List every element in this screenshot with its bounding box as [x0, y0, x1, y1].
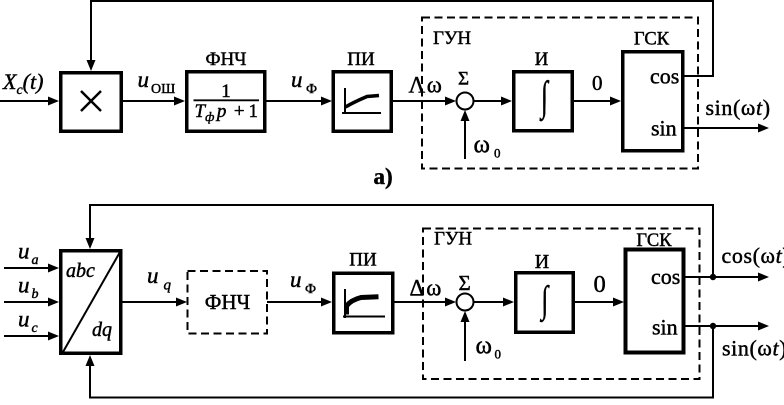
PI icon (top): [344, 88, 346, 114]
svg-text:И: И: [535, 251, 549, 273]
svg-text:u: u: [290, 267, 302, 292]
svg-text:0: 0: [494, 146, 501, 161]
wire multiplier to ФНЧ: [121, 100, 176, 102]
svg-text:sin(ωt): sin(ωt): [706, 95, 771, 120]
svg-text:Tфp+1: Tфp+1: [195, 101, 259, 124]
svg-text:ГУН: ГУН: [433, 28, 471, 49]
svg-text:Ф: Ф: [306, 82, 317, 97]
block ГСК (top): [623, 52, 683, 151]
block И integrator (bottom): [516, 273, 574, 333]
svg-text:u: u: [291, 67, 303, 92]
wire ФНЧ to ПИ (bottom): [267, 301, 323, 303]
multiplier x sign: [81, 91, 101, 111]
svg-text:ω: ω: [476, 333, 492, 360]
wire Σ to И (top): [474, 100, 504, 102]
wire ПИ to Σ (bottom): [393, 301, 448, 303]
svg-text:u: u: [18, 307, 30, 332]
block ПИ (bottom): [334, 273, 393, 333]
wire input u_c: [4, 335, 50, 337]
summing junction Σ (bottom): [457, 294, 474, 311]
wire feedback bottom (sin to abc/dq): [90, 326, 713, 398]
svg-text:ФНЧ: ФНЧ: [205, 290, 251, 314]
svg-text:0: 0: [495, 347, 502, 362]
wire sin output (bottom): [685, 325, 760, 327]
wire ФНЧ to ПИ: [266, 100, 323, 102]
block ФНЧ (top): [187, 72, 265, 132]
wire cos output (bottom): [685, 276, 760, 278]
wire input u_b: [4, 301, 50, 303]
dashed box ГУН (bottom): [423, 229, 700, 380]
svg-text:b: b: [32, 287, 39, 302]
wire feedback top (cos to multiplier): [91, 1, 713, 76]
block ПИ (top): [333, 72, 391, 132]
svg-text:c: c: [32, 321, 39, 336]
svg-text:dq: dq: [92, 319, 112, 341]
svg-text:И: И: [535, 49, 549, 70]
svg-text:а): а): [374, 164, 393, 189]
svg-text:Ф: Ф: [305, 282, 316, 297]
wire И to ГСК (top): [574, 100, 613, 102]
svg-text:Σ: Σ: [459, 271, 471, 295]
svg-text:Xс(t): Xс(t): [2, 69, 43, 98]
dashed block ФНЧ (bottom): [188, 271, 268, 334]
summing junction Σ (top): [457, 93, 474, 110]
wire input u_a: [4, 267, 50, 269]
svg-text:a: a: [32, 253, 39, 268]
svg-text:ПИ: ПИ: [349, 250, 377, 271]
svg-text:ОШ: ОШ: [151, 82, 175, 97]
svg-text:sin: sin: [651, 116, 677, 141]
svg-text:u: u: [147, 263, 159, 288]
wire ω0 input (top): [464, 119, 466, 159]
svg-text:ФНЧ: ФНЧ: [205, 49, 246, 70]
svg-text:abc: abc: [66, 260, 95, 282]
svg-text:u: u: [18, 273, 30, 298]
svg-text:Δω: Δω: [410, 276, 442, 301]
block abc/dq: [61, 251, 121, 354]
wire И to ГСК (bottom): [575, 301, 616, 303]
block ГСК (bottom): [626, 250, 684, 353]
wire input Xc(t): [0, 100, 49, 102]
svg-text:u: u: [18, 239, 30, 264]
svg-text:Σ: Σ: [458, 69, 469, 90]
wire ω0 input (bottom): [464, 320, 466, 361]
wire abc/dq to ФНЧ: [121, 301, 178, 303]
junction dot sin: [710, 323, 716, 329]
junction dot cos: [710, 274, 716, 280]
svg-text:0: 0: [592, 71, 603, 95]
svg-text:Λω: Λω: [409, 73, 442, 98]
svg-text:0: 0: [594, 271, 606, 298]
PI icon (bottom): [344, 289, 346, 318]
svg-text:sin(ωt): sin(ωt): [722, 336, 784, 361]
wire ПИ to Σ (top): [392, 100, 448, 102]
wire sin output (top): [684, 127, 760, 129]
svg-text:ГСК: ГСК: [634, 30, 670, 50]
svg-text:sin: sin: [652, 315, 678, 340]
wire Σ to И (bottom): [474, 301, 506, 303]
svg-text:u: u: [138, 67, 150, 92]
wire feedback top (cos to abc/dq): [90, 205, 713, 277]
svg-text:ω: ω: [474, 132, 490, 159]
block И integrator (top): [514, 72, 573, 131]
svg-text:q: q: [164, 278, 172, 294]
diagonal of abc/dq: [63, 252, 120, 352]
svg-text:cos(ωt): cos(ωt): [722, 243, 784, 268]
multiplier block: [61, 73, 122, 132]
svg-text:ПИ: ПИ: [347, 49, 375, 70]
svg-text:cos: cos: [651, 264, 680, 289]
svg-text:1: 1: [221, 81, 231, 102]
svg-text:cos: cos: [650, 64, 679, 89]
dashed box ГУН (top): [422, 18, 698, 169]
svg-text:ГУН: ГУН: [434, 229, 472, 250]
